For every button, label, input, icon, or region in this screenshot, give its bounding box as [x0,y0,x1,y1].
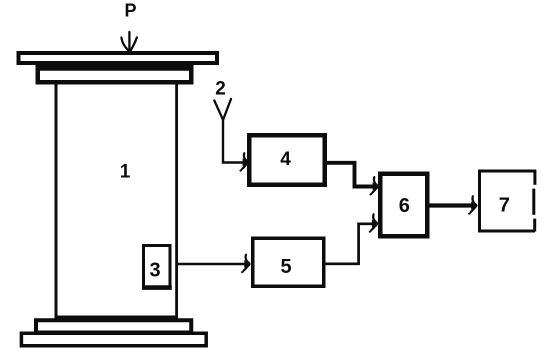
wire box6 to box7 (thick) [429,203,474,207]
svg-text:P: P [124,1,136,21]
wire box5 to box6 (stepped) [325,224,374,264]
specimen 1 (left wall) [55,84,58,317]
wire box4 to box6 (stepped, thick) [326,163,376,187]
arrowhead into box 7 [469,196,478,213]
svg-text:2: 2 [215,79,226,100]
top platen (upper wide plate) [19,53,218,63]
box 3 (sensor on specimen wall) [142,246,172,288]
svg-text:1: 1 [120,162,131,183]
wire box3/specimen to box5 [178,263,245,265]
upper loading plate (second plate) [38,66,193,82]
specimen 1 (right wall) [175,85,178,317]
arrow P (load arrow down onto top platen) [121,32,136,50]
box 5 (amplifier 2) [253,238,324,286]
sensor 2 antenna (V symbol) [214,99,231,120]
base platen (bottom wide plate) [21,333,206,346]
arrowhead into box 6 (upper input) [370,177,379,194]
svg-text:6: 6 [399,195,410,217]
box 7 (recorder, right border drawn with small gaps) [480,171,537,232]
arrowhead into box 4 [240,153,249,170]
wire sensor2 to box4 [223,118,247,163]
svg-text:5: 5 [280,256,291,278]
box 6 (processing unit) [380,174,427,237]
svg-text:3: 3 [149,259,160,281]
specimen 1 (bottom edge, thick) [55,316,179,321]
arrowhead into box 6 (lower input) [370,214,379,231]
lower plate (below specimen) [36,320,191,332]
svg-text:7: 7 [499,195,510,217]
arrowhead into box 5 [242,255,251,272]
box 4 (amplifier) [249,135,325,185]
svg-text:4: 4 [280,149,291,170]
